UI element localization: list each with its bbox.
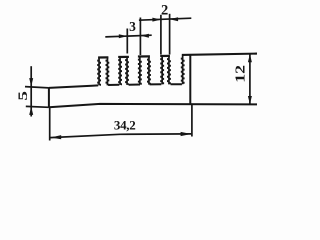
dimension 34,2 line bbox=[50, 134, 191, 138]
wire base top left segment bbox=[49, 85, 98, 88]
wire end wall cap and top extension line for 12 bbox=[182, 54, 257, 55]
wire fin 1 cap bbox=[98, 56, 108, 58]
arrow 5 bottom pointing up bbox=[29, 107, 33, 115]
arrow 2 left bbox=[152, 18, 161, 22]
dimension 34,2 right extension line bbox=[191, 105, 193, 137]
wire valley 3 bbox=[150, 83, 162, 85]
arrow 34,2 right pointing right bbox=[181, 132, 192, 136]
svg-text:2: 2 bbox=[161, 2, 168, 18]
svg-text:12: 12 bbox=[233, 65, 248, 83]
svg-text:34,2: 34,2 bbox=[114, 117, 136, 132]
dimension 2 line bbox=[139, 18, 191, 20]
wire valley 2 bbox=[129, 84, 140, 86]
fin 2 serrated edges bbox=[118, 57, 129, 85]
arrow 5 top pointing down bbox=[29, 78, 33, 86]
svg-text:3: 3 bbox=[129, 19, 136, 34]
wire valley 1 bbox=[108, 84, 119, 86]
wire fin 2 cap bbox=[118, 56, 129, 58]
dimension 2 left extension line bbox=[160, 15, 162, 55]
dimension 3 right extension line bbox=[139, 18, 141, 56]
dimension 5 line bbox=[30, 66, 32, 116]
wire fin 4 cap bbox=[160, 55, 170, 57]
dimension 3 line bbox=[105, 35, 151, 37]
wire valley 4 bbox=[171, 83, 182, 85]
wire end wall right edge (profile right side) bbox=[189, 55, 191, 104]
dimension 5 bottom extension line bbox=[26, 105, 49, 108]
dimension 2 right extension line bbox=[169, 14, 171, 55]
fin 3 serrated edges bbox=[138, 57, 151, 85]
wire left edge of heatsink profile bbox=[48, 88, 50, 107]
dimension 34,2 left extension line bbox=[49, 107, 51, 140]
arrow 3 left bbox=[119, 34, 128, 38]
wire bottom edge of profile plus right extension bbox=[49, 104, 257, 107]
wire fin 3 cap bbox=[138, 55, 150, 57]
arrow 2 right bbox=[170, 17, 179, 21]
fin 1 serrated edges bbox=[97, 58, 109, 86]
dimension 3 left extension line bbox=[126, 29, 128, 54]
arrow 12 bottom pointing down bbox=[248, 96, 252, 104]
dimension 12 line bbox=[249, 54, 251, 104]
arrow 34,2 left pointing left bbox=[51, 135, 62, 139]
fin 4 serrated edges bbox=[160, 56, 171, 84]
arrow 3 right bbox=[140, 34, 149, 38]
dimension 5 top extension line bbox=[25, 87, 49, 88]
end wall serrated left edge bbox=[181, 56, 185, 85]
arrow 12 top pointing up bbox=[248, 54, 252, 62]
svg-text:5: 5 bbox=[15, 91, 30, 101]
